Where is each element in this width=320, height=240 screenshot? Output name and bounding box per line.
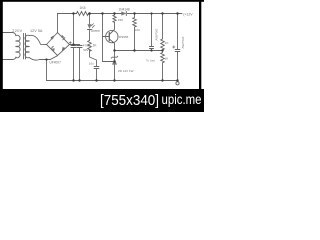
wire LED to R2 bbox=[89, 30, 91, 41]
transistor Q1 bbox=[106, 30, 118, 42]
plus sign C5 bbox=[173, 46, 175, 48]
junction: cap C1 top on +rail bbox=[72, 12, 74, 14]
svg-text:To batt: To batt bbox=[146, 59, 155, 63]
resistor R5 column bbox=[161, 51, 165, 81]
capacitor C3 10u bbox=[94, 67, 99, 69]
zener diode ZD1 bbox=[114, 51, 116, 81]
svg-text:100: 100 bbox=[135, 28, 140, 32]
frame borders bbox=[0, 0, 204, 2]
svg-text:UF4007: UF4007 bbox=[50, 60, 62, 64]
resistor R4 column bbox=[161, 14, 165, 51]
junction: C4 on output wire bbox=[150, 49, 152, 51]
wire secondary bottom lead bbox=[29, 56, 57, 60]
bridge rectifier diamond bbox=[47, 33, 70, 56]
wire R2 to C3 bbox=[90, 50, 97, 66]
wire bridge right corner to cap node bbox=[70, 44, 80, 46]
junction: bridge + output to cap node bbox=[72, 43, 74, 45]
junction: LED branch on +rail bbox=[88, 12, 91, 15]
svg-text:1K: 1K bbox=[165, 57, 169, 61]
junction: R4/R5 on output wire bbox=[161, 49, 163, 51]
junction: base column on +rail bbox=[101, 12, 103, 14]
svg-text:10u: 10u bbox=[89, 61, 94, 65]
junction: C2 bottom on 0V rail bbox=[78, 79, 80, 81]
junction: C5 bottom on 0V rail bbox=[176, 79, 178, 81]
transformer T1 primary winding bbox=[16, 35, 20, 58]
terminal circle bbox=[176, 82, 179, 85]
wire bottom rail left riser bbox=[46, 60, 48, 81]
junction: cap C4 on +rail bbox=[150, 12, 152, 14]
transformer T1 secondary winding bbox=[25, 35, 29, 57]
junction: base stub at zener bbox=[113, 60, 115, 62]
svg-text:4700u: 4700u bbox=[83, 44, 92, 48]
resistor R3 column bbox=[133, 14, 137, 51]
capacitor C1 4700u column bbox=[73, 14, 75, 46]
capacitor C2 4700u column bbox=[79, 44, 81, 47]
wire base column bbox=[103, 14, 115, 62]
svg-text:1N4148: 1N4148 bbox=[119, 7, 130, 11]
wire rail to LED bbox=[89, 14, 91, 25]
LED D6 green bbox=[87, 24, 91, 29]
bridge diode D1 bbox=[50, 36, 53, 39]
junction: zener bottom on 0V rail bbox=[113, 79, 115, 81]
diode D5 on rail bbox=[121, 11, 126, 15]
svg-text:[755x340]: [755x340] bbox=[100, 92, 159, 109]
wire secondary top lead to bridge bbox=[29, 35, 46, 44]
resistor R2 vertical bbox=[88, 41, 92, 52]
capacitor C4 small column bbox=[149, 14, 153, 51]
resistor R1 on rail bbox=[77, 12, 89, 16]
svg-text:1K: 1K bbox=[165, 41, 169, 45]
wire bridge top corner to top rail bbox=[57, 14, 59, 33]
junction: R5 bottom on 0V rail bbox=[161, 79, 163, 81]
svg-text:50V: 50V bbox=[83, 48, 88, 52]
svg-text:470u/25V: 470u/25V bbox=[181, 37, 185, 49]
wire top rail bbox=[58, 13, 183, 15]
junction: C1 bottom on 0V rail bbox=[72, 79, 74, 81]
junction: secondary return to bottom rail bbox=[45, 58, 47, 60]
bridge diode D3 bbox=[52, 48, 55, 51]
junction: resistor R3 on +rail bbox=[133, 12, 135, 14]
junction: emitter on output wire bbox=[113, 49, 115, 51]
wire primary top lead bbox=[3, 33, 16, 36]
junction: collector riser on +rail bbox=[113, 12, 115, 14]
junction: resistor R4 on +rail bbox=[161, 12, 163, 14]
schematic labels bbox=[12, 6, 193, 73]
svg-text:220V: 220V bbox=[12, 29, 22, 33]
junction: C3 bottom on 0V rail bbox=[95, 79, 97, 81]
wire bottom rail bbox=[47, 80, 178, 82]
svg-text:(+12V: (+12V bbox=[183, 12, 193, 16]
junction: R3 on output wire bbox=[133, 49, 135, 51]
wire output node horizontal bbox=[115, 50, 163, 52]
junction: cap C5 on +rail bbox=[176, 12, 178, 14]
wire emitter lead bbox=[109, 39, 114, 51]
svg-text:150: 150 bbox=[118, 18, 123, 22]
svg-text:TIP3055: TIP3055 bbox=[117, 35, 129, 39]
svg-text:Green: Green bbox=[91, 29, 100, 33]
bridge diode D4 bbox=[62, 47, 65, 50]
svg-text:1K8: 1K8 bbox=[80, 6, 86, 10]
svg-text:12V 5A: 12V 5A bbox=[30, 29, 43, 33]
svg-text:upic.me: upic.me bbox=[162, 92, 202, 107]
svg-text:100u/50V: 100u/50V bbox=[155, 29, 159, 41]
plus sign C1 bbox=[69, 42, 71, 44]
bridge diode D2 bbox=[61, 35, 64, 38]
resistor R6 collector riser bbox=[109, 14, 116, 35]
transformer T1 core bbox=[23, 34, 25, 60]
capacitor C5 470u column bbox=[175, 14, 180, 81]
svg-text:ZD 12V 1W: ZD 12V 1W bbox=[118, 69, 134, 73]
wire primary bottom lead bbox=[3, 57, 16, 60]
bottom black bar bbox=[0, 89, 204, 112]
